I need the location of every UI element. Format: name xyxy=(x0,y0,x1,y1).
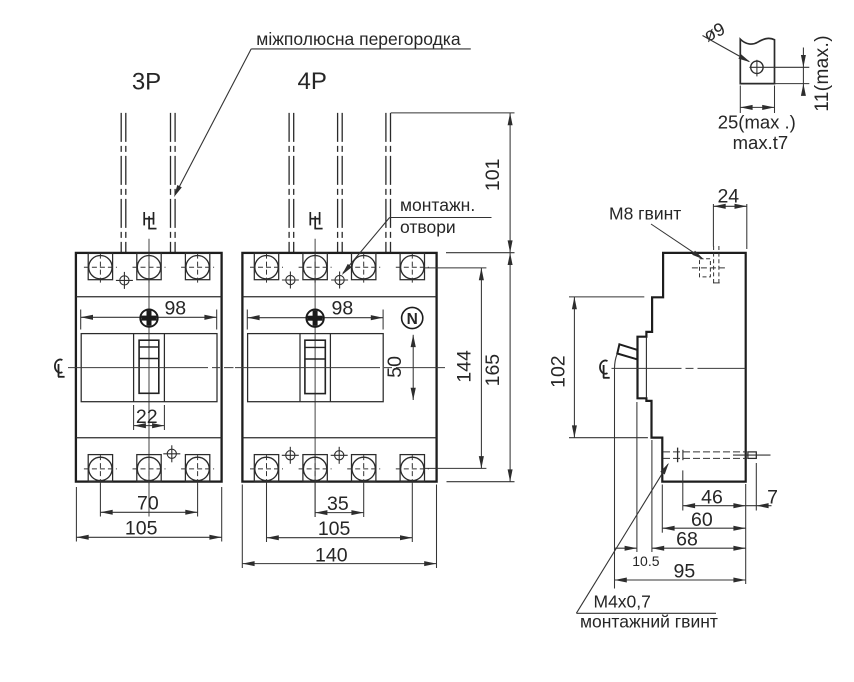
dimension 165 (overall height) xyxy=(446,253,515,482)
4P breaker outer case xyxy=(242,253,436,482)
dimension 105 (4P outer pole pitch) xyxy=(267,484,413,542)
3P horizontal centreline xyxy=(68,367,234,369)
svg-text:max.t7: max.t7 xyxy=(733,132,789,153)
svg-text:105: 105 xyxy=(318,518,351,540)
svg-text:95: 95 xyxy=(674,560,696,582)
svg-text:46: 46 xyxy=(701,487,723,509)
svg-text:11(max.): 11(max.) xyxy=(812,35,833,112)
dimension 7 (screw protrusion) xyxy=(746,463,778,511)
4P face plate divisions xyxy=(300,334,330,402)
svg-text:М8 гвинт: М8 гвинт xyxy=(609,204,681,224)
4P face plate xyxy=(248,334,384,402)
dimension 60 (lower depth) xyxy=(662,485,745,533)
4P vertical centreline symbol xyxy=(310,212,323,229)
3P face plate divisions xyxy=(134,334,165,402)
svg-text:98: 98 xyxy=(332,298,354,320)
svg-text:101: 101 xyxy=(482,159,504,192)
M8 screw label (М8 гвинт) xyxy=(609,204,681,224)
svg-text:N: N xyxy=(407,311,418,328)
3P bottom mounting hole xyxy=(163,445,180,462)
dimension 101 (partition height) xyxy=(391,113,515,253)
4P bottom terminal 2 xyxy=(299,455,332,486)
svg-text:50: 50 xyxy=(384,356,406,378)
3P face plate xyxy=(81,334,217,402)
dimension 140 (4P overall width) xyxy=(242,485,436,569)
svg-text:монтажний гвинт: монтажний гвинт xyxy=(580,612,718,632)
label 3P xyxy=(132,69,161,96)
svg-text:22: 22 xyxy=(136,406,158,428)
label max.t7 xyxy=(733,132,789,153)
leader arrow to M8 screw xyxy=(651,224,704,260)
3P vertical centreline symbol xyxy=(144,212,157,229)
M4 screw label leader xyxy=(576,463,668,613)
leader arrow to mounting hole xyxy=(342,218,390,276)
M4 screw head lines xyxy=(678,448,683,463)
detail: hole Ø9 xyxy=(749,60,809,77)
svg-text:M4x0,7: M4x0,7 xyxy=(594,592,651,612)
label 4P xyxy=(298,68,327,95)
3P bottom terminal 3 xyxy=(181,455,214,486)
3P bottom terminal 1 xyxy=(84,455,117,486)
leader arrow to partition xyxy=(174,49,251,197)
svg-text:монтажн.: монтажн. xyxy=(400,195,475,215)
svg-text:отвори: отвори xyxy=(400,217,456,237)
svg-text:102: 102 xyxy=(547,355,569,388)
dimension 25(max.) xyxy=(718,86,796,133)
svg-text:98: 98 xyxy=(164,297,186,319)
svg-text:3P: 3P xyxy=(132,69,161,96)
4P top mounting hole 2 xyxy=(331,272,348,289)
detail: terminal tab outline xyxy=(740,38,774,83)
3P top terminal strip line xyxy=(76,296,222,298)
side view handle travel arc xyxy=(615,354,618,368)
side view escutcheon inner edge xyxy=(645,337,647,399)
4P pole-2 centreline xyxy=(314,239,316,517)
4P top mounting hole 1 xyxy=(282,272,299,289)
svg-text:7: 7 xyxy=(767,487,778,509)
label mounting holes (монтажн. отвори) xyxy=(390,195,492,237)
svg-text:144: 144 xyxy=(453,350,475,383)
svg-text:4P: 4P xyxy=(298,68,327,95)
svg-text:24: 24 xyxy=(717,185,739,207)
3P top terminal 3 xyxy=(181,253,214,284)
4P interpole partition 1 xyxy=(289,113,294,253)
label: interpole partition (міжполюсна перегородка) xyxy=(251,29,471,49)
3P top terminal 2 xyxy=(133,253,166,284)
side view horizontal centreline xyxy=(612,367,746,369)
svg-text:105: 105 xyxy=(125,518,158,540)
dimension 10.5 (cover protrusion) xyxy=(615,402,660,569)
dimension 11(max.) xyxy=(775,35,834,112)
4P bottom terminal strip line xyxy=(242,437,436,439)
4P top terminal strip line xyxy=(242,296,436,298)
M8 terminal screw (dashed) xyxy=(692,246,726,283)
3P bottom terminal 2 xyxy=(133,455,166,486)
3P centreline symbol CL xyxy=(55,360,65,377)
svg-text:10.5: 10.5 xyxy=(632,553,659,569)
4P top terminal 1 xyxy=(250,253,283,284)
3P bottom terminal strip line xyxy=(76,437,222,439)
4P top terminal 4 xyxy=(396,253,429,284)
3P interpole partition 1 xyxy=(121,113,126,253)
svg-text:165: 165 xyxy=(482,354,504,387)
svg-text:140: 140 xyxy=(315,545,348,567)
4P interpole partition 2 xyxy=(338,113,343,253)
4P bottom mounting hole 1 xyxy=(282,447,299,464)
4P horizontal centreline xyxy=(235,367,445,369)
svg-text:35: 35 xyxy=(327,493,349,515)
dimension 24 (top depth) xyxy=(713,185,746,249)
4P bottom mounting hole 2 xyxy=(331,447,348,464)
dimension 98 (4P handle mounting) xyxy=(247,298,383,330)
4P bottom terminal 3 xyxy=(347,455,380,486)
dimension 70 (3P outer pole pitch) xyxy=(100,484,197,517)
svg-text:міжполюсна перегородка: міжполюсна перегородка xyxy=(256,29,461,49)
M4 mounting screw (dashed shank) xyxy=(663,452,771,459)
label Ø9 with leader xyxy=(701,19,751,63)
4P toggle handle xyxy=(305,340,325,393)
M4 screw label (M4x0,7 монтажний гвинт) xyxy=(576,592,718,632)
3P pole-2 centreline xyxy=(148,239,150,517)
3P breaker outer case xyxy=(76,253,222,482)
dimension 105 (3P overall width) xyxy=(76,487,221,542)
dimension 68 (body depth) xyxy=(652,529,746,551)
side view body outline xyxy=(638,253,746,482)
3P mounting screw symbol xyxy=(140,309,157,326)
dimension 46 (mounting hole to back) xyxy=(683,470,746,510)
4P bottom terminal 1 xyxy=(250,455,283,486)
4P bottom terminal 4 xyxy=(396,455,429,486)
dimension 50 (face plate height) xyxy=(384,335,416,400)
svg-text:25(max .): 25(max .) xyxy=(718,112,796,133)
3P top terminal 1 xyxy=(84,253,117,284)
side view toggle lever xyxy=(617,344,637,359)
3P toggle handle xyxy=(139,340,159,393)
dimension 35 (4P pole pitch) xyxy=(315,484,364,517)
svg-text:68: 68 xyxy=(676,529,698,551)
3P top mounting hole xyxy=(116,272,133,289)
4P interpole partition 3 xyxy=(386,113,391,253)
dimension 144 (terminal centres) xyxy=(425,268,487,469)
dimension 98 (3P handle mounting) xyxy=(81,297,217,329)
side view centreline symbol CL xyxy=(600,361,610,378)
svg-text:70: 70 xyxy=(137,493,159,515)
dimension 102 (handle centre height) xyxy=(547,297,648,438)
4P mounting screw symbol xyxy=(306,310,323,327)
4P top terminal 3 xyxy=(347,253,380,284)
dimension 22 (3P handle width) xyxy=(134,405,165,430)
dimension 95 (overall depth) xyxy=(615,369,746,589)
3P interpole partition 2 xyxy=(171,113,176,253)
4P neutral pole symbol N xyxy=(402,307,423,328)
4P top terminal 2 xyxy=(299,253,332,284)
